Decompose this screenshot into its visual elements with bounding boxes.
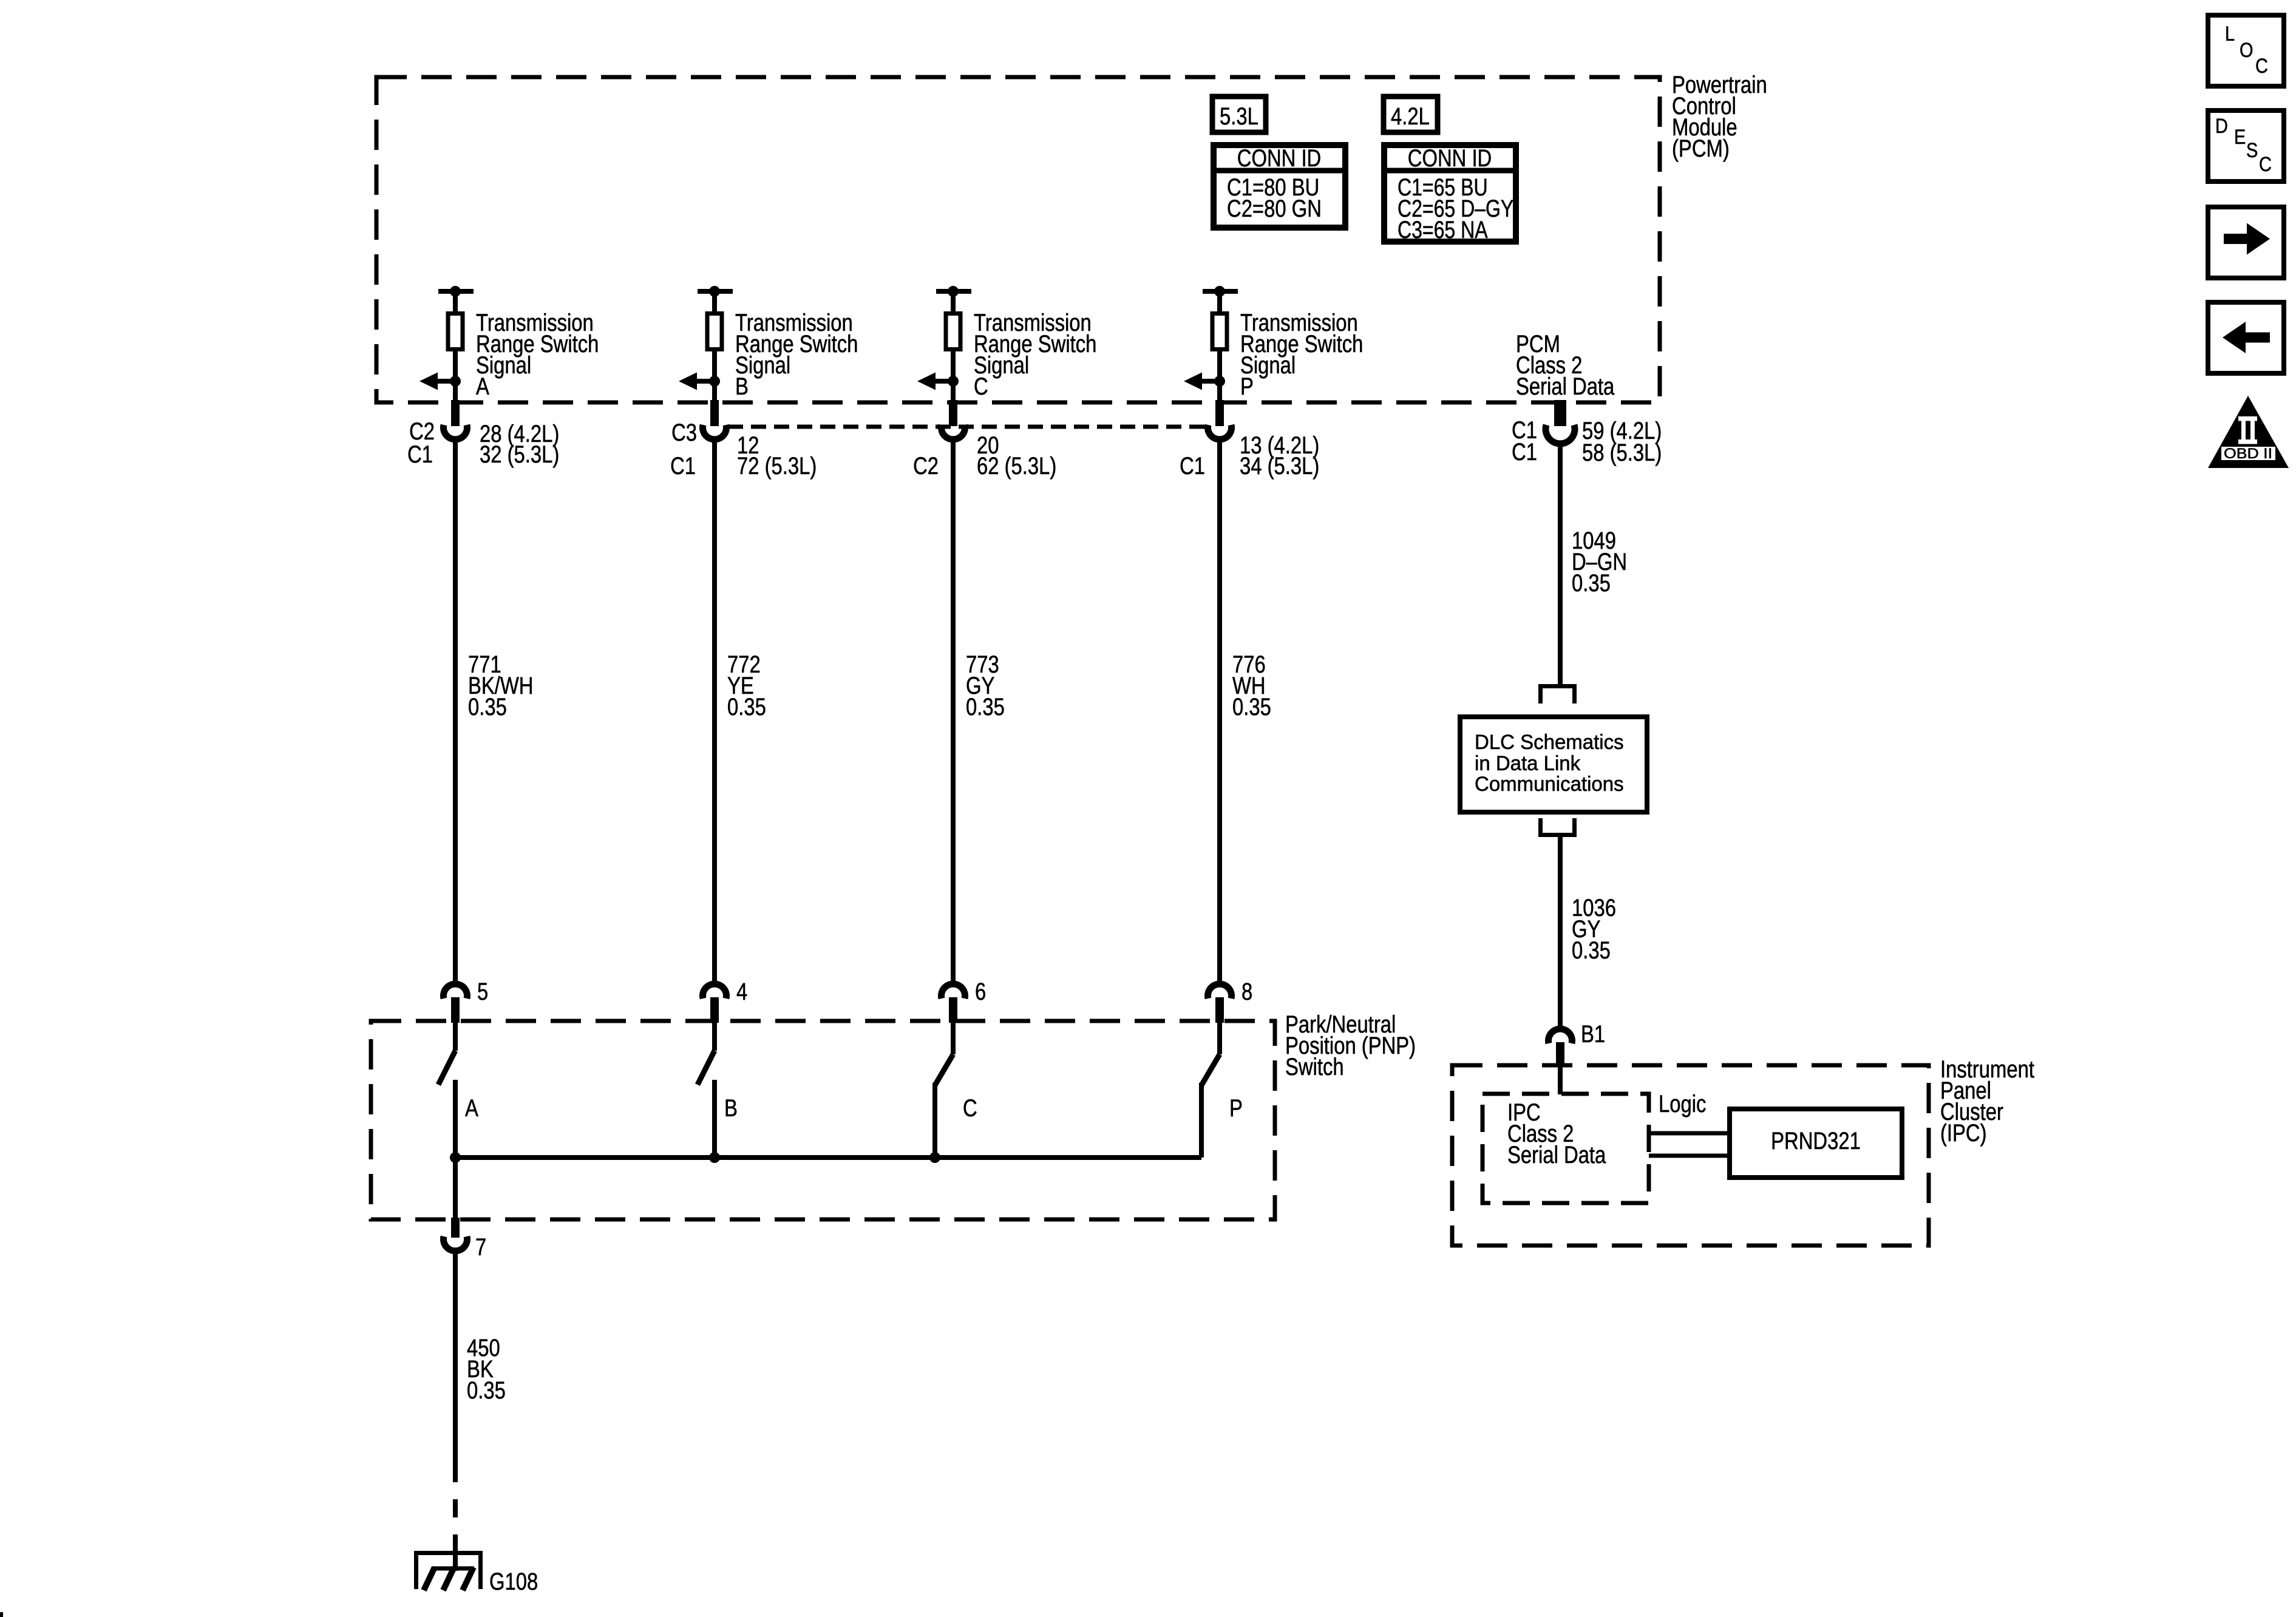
wire, resistor to arrow node C — [951, 351, 956, 404]
pin number 7 — [475, 1234, 486, 1261]
svg-text:C3: C3 — [671, 419, 697, 446]
PNP connector terminal pin 4 — [703, 984, 727, 1023]
pin number 12 (B connector) — [737, 432, 759, 459]
pin number 32 (5.3L) (A connector) — [480, 441, 559, 468]
pin number 28 (4.2L) (A connector) — [480, 421, 559, 447]
wire, pin 5 into switch A — [453, 1023, 458, 1051]
switch position label C — [963, 1095, 977, 1122]
svg-text:C2=80 GN: C2=80 GN — [1227, 195, 1322, 222]
wire 772 from PCM to PNP switch (B) — [712, 439, 717, 982]
wire label 773 GY — [966, 651, 1005, 720]
svg-text:OBD II: OBD II — [2224, 446, 2272, 462]
pin number 20 (C connector) — [977, 432, 999, 459]
junction dot at arrow, signal C — [948, 376, 959, 387]
svg-text:(IPC): (IPC) — [1940, 1120, 1987, 1147]
pin label C2 (C connector) — [913, 453, 939, 480]
switch position label P — [1229, 1095, 1243, 1122]
OBD II icon — [2208, 396, 2289, 468]
signal arrow P — [1184, 373, 1220, 390]
pin number 59 (4.2L) — [1582, 418, 1662, 444]
off-page bracket above DLC box — [1538, 684, 1577, 703]
Park/Neutral Position (PNP) Switch dashed box — [371, 1021, 1275, 1219]
PCM connector terminal, signal P — [1207, 400, 1231, 439]
junction dot at arrow, signal A — [450, 376, 461, 387]
wire 776 from PCM to PNP switch (P) — [1217, 439, 1222, 982]
svg-text:Serial Data: Serial Data — [1507, 1142, 1606, 1168]
DESC icon box — [2208, 110, 2284, 181]
svg-text:E: E — [2234, 126, 2246, 149]
switch position label B — [724, 1095, 738, 1122]
label Transmission Range Switch Signal P — [1240, 310, 1363, 400]
page corner mark — [0, 1612, 3, 1617]
wire, pin 4 into switch B — [712, 1023, 717, 1051]
junction dot top, signal C — [948, 286, 959, 297]
switch blade A — [438, 1051, 455, 1085]
label Transmission Range Switch Signal C — [974, 310, 1096, 400]
DLC Schematics reference box — [1460, 717, 1647, 812]
pin number 5 — [477, 978, 488, 1005]
svg-text:L: L — [2225, 22, 2235, 46]
svg-text:0.35: 0.35 — [467, 1377, 506, 1404]
svg-text:B: B — [724, 1095, 738, 1122]
IPC connector terminal B1 — [1549, 1029, 1572, 1066]
PNP connector terminal pin 7 — [444, 1218, 467, 1251]
svg-text:S: S — [2246, 139, 2258, 162]
PCM connector terminal, signal B — [703, 400, 727, 439]
PNP connector terminal pin 5 — [444, 984, 467, 1023]
svg-text:0.35: 0.35 — [468, 694, 507, 720]
switch blade C — [935, 1054, 953, 1085]
pin number 34 (5.3L) (P connector) — [1240, 453, 1319, 480]
PCM module label — [1672, 72, 1767, 162]
svg-text:0.35: 0.35 — [1232, 694, 1271, 720]
switch position label A — [465, 1095, 478, 1122]
PCM connector terminal, signal C — [942, 400, 965, 439]
PNP connector terminal pin 8 — [1207, 984, 1231, 1023]
wire label 776 WH — [1232, 651, 1271, 720]
wire label 450 BK 0.35 — [467, 1335, 506, 1404]
dotted link line across connectors — [728, 425, 1207, 429]
wire label 771 BK/WH — [468, 651, 534, 720]
svg-text:C: C — [2255, 55, 2268, 78]
switch blade P — [1201, 1054, 1220, 1085]
svg-text:0.35: 0.35 — [966, 694, 1005, 720]
pin number 72 (5.3L) (B connector) — [737, 453, 817, 480]
engine tag 4.2L — [1384, 97, 1438, 132]
wire 450 BK to ground — [453, 1252, 458, 1571]
engine tag 5.3L — [1212, 97, 1266, 132]
svg-text:O: O — [2240, 39, 2254, 62]
svg-text:(PCM): (PCM) — [1672, 135, 1730, 162]
svg-text:0.35: 0.35 — [1572, 937, 1611, 964]
svg-text:DLC Schematics: DLC Schematics — [1475, 731, 1624, 754]
svg-text:PRND321: PRND321 — [1771, 1128, 1861, 1154]
svg-text:B1: B1 — [1581, 1021, 1605, 1048]
junction dot top, signal P — [1214, 286, 1225, 297]
wire, pin 6 into switch C — [951, 1023, 956, 1054]
pin number 13 (4.2L) (P connector) — [1240, 432, 1319, 459]
signal arrow C — [917, 373, 953, 390]
internal node bar, signal B — [698, 289, 733, 294]
junction dot bus at A — [450, 1152, 461, 1163]
resistor, Transmission Range Switch Signal B — [707, 314, 722, 350]
svg-text:CONN ID: CONN ID — [1237, 145, 1322, 172]
IPC label — [1940, 1056, 2034, 1147]
svg-text:58 (5.3L): 58 (5.3L) — [1582, 439, 1662, 466]
pin label C1 (P connector) — [1180, 453, 1205, 480]
svg-text:G108: G108 — [489, 1568, 538, 1595]
wire, B1 into IPC — [1558, 1066, 1563, 1094]
wire label 772 YE — [727, 651, 766, 720]
wire, node bar to resistor B — [712, 291, 717, 313]
junction dot bus at B — [709, 1152, 720, 1163]
wire, resistor to arrow node P — [1217, 351, 1222, 404]
svg-text:C1: C1 — [670, 453, 696, 480]
pin number B1 — [1581, 1021, 1605, 1048]
PCM Class 2 Serial Data label — [1516, 331, 1615, 400]
svg-text:in Data Link: in Data Link — [1475, 752, 1581, 775]
signal arrow A — [419, 373, 455, 390]
wire label 1036 GY 0.35 — [1572, 895, 1616, 964]
pin label C1 (serial, 5.3L) — [1512, 439, 1537, 466]
pin label C1 (B connector) — [670, 453, 696, 480]
CONN ID table (4.2L) — [1384, 145, 1516, 243]
svg-text:P: P — [1229, 1095, 1243, 1122]
pin number 8 — [1241, 978, 1252, 1005]
svg-text:B: B — [735, 373, 749, 400]
Logic label — [1659, 1091, 1706, 1117]
wire, resistor to arrow node A — [453, 351, 458, 404]
wire label 1049 D-GN 0.35 — [1572, 527, 1627, 597]
wire, node bar to resistor P — [1217, 291, 1222, 313]
LOC icon box — [2208, 15, 2284, 86]
pin label C2 (A connector) — [409, 418, 435, 445]
svg-text:C: C — [2259, 153, 2272, 176]
svg-text:62 (5.3L): 62 (5.3L) — [977, 453, 1056, 480]
internal node bar, signal A — [438, 289, 474, 294]
svg-text:C: C — [963, 1095, 977, 1122]
logic bus double line — [1649, 1133, 1731, 1156]
junction dot at arrow, signal P — [1214, 376, 1225, 387]
wire, lower contact A to common bus — [453, 1080, 458, 1158]
wire 1036 GY — [1558, 837, 1563, 1028]
svg-text:Switch: Switch — [1285, 1054, 1344, 1080]
wire 773 from PCM to PNP switch (C) — [951, 439, 956, 982]
PCM connector terminal, serial data — [1546, 400, 1575, 444]
PRND321 display box — [1730, 1109, 1902, 1178]
svg-text:C2: C2 — [913, 453, 939, 480]
common bus wire in PNP switch — [455, 1155, 1201, 1160]
svg-text:D: D — [2215, 115, 2228, 138]
pin number 4 — [736, 978, 747, 1005]
wire, resistor to arrow node B — [712, 351, 717, 404]
pin number 62 (5.3L) (C connector) — [977, 453, 1056, 480]
svg-text:A: A — [476, 373, 489, 400]
back arrow icon box — [2208, 302, 2284, 373]
svg-text:72 (5.3L): 72 (5.3L) — [737, 453, 817, 480]
internal node bar, signal C — [936, 289, 971, 294]
junction dot at arrow, signal B — [709, 376, 720, 387]
svg-text:Serial Data: Serial Data — [1516, 373, 1615, 400]
internal node bar, signal P — [1203, 289, 1238, 294]
switch blade B — [698, 1051, 715, 1085]
svg-text:32 (5.3L): 32 (5.3L) — [480, 441, 559, 468]
wire, bus to pin 7 — [453, 1158, 458, 1219]
Powertrain Control Module (PCM) dashed box — [376, 77, 1660, 402]
svg-text:7: 7 — [475, 1234, 486, 1261]
wire 1049 D-GN — [1558, 442, 1563, 685]
pin label C1 (A connector) — [407, 441, 433, 468]
svg-text:C3=65 NA: C3=65 NA — [1398, 217, 1488, 243]
PNP switch label — [1285, 1011, 1416, 1080]
svg-text:A: A — [465, 1095, 478, 1122]
CONN ID table (5.3L) — [1214, 145, 1345, 228]
pin number 58 (5.3L) — [1582, 439, 1662, 466]
wire 771 from PCM to PNP switch (A) — [453, 439, 458, 982]
svg-text:6: 6 — [975, 978, 986, 1005]
IPC Class 2 Serial Data label — [1507, 1099, 1606, 1168]
svg-text:P: P — [1240, 373, 1254, 400]
svg-text:C1: C1 — [1512, 439, 1537, 466]
svg-text:4.2L: 4.2L — [1391, 103, 1430, 130]
off-page bracket below DLC box — [1538, 818, 1577, 837]
svg-text:C1: C1 — [1180, 453, 1205, 480]
ground name G108 — [489, 1568, 538, 1595]
pin number 6 — [975, 978, 986, 1005]
wire, pin 8 into switch P — [1217, 1023, 1222, 1054]
svg-text:Logic: Logic — [1659, 1091, 1706, 1117]
svg-text:CONN ID: CONN ID — [1408, 145, 1492, 172]
PNP connector terminal pin 6 — [942, 984, 965, 1023]
wire, node bar to resistor C — [951, 291, 956, 313]
ground G108 — [414, 1551, 483, 1590]
forward arrow icon box — [2208, 207, 2284, 278]
svg-text:5: 5 — [477, 978, 488, 1005]
wire, blade C to common bus — [932, 1083, 937, 1158]
wire, blade P to common bus — [1199, 1083, 1204, 1158]
label Transmission Range Switch Signal B — [735, 310, 858, 400]
svg-text:0.35: 0.35 — [727, 694, 766, 720]
resistor, Transmission Range Switch Signal A — [448, 314, 463, 350]
signal arrow B — [679, 373, 715, 390]
svg-text:Communications: Communications — [1475, 773, 1624, 796]
PCM connector terminal, signal A — [444, 400, 467, 439]
junction dot top, signal B — [709, 286, 720, 297]
resistor, Transmission Range Switch Signal C — [946, 314, 960, 350]
svg-text:4: 4 — [736, 978, 747, 1005]
svg-text:8: 8 — [1241, 978, 1252, 1005]
pin label C3 (B connector) — [671, 419, 697, 446]
svg-text:C1: C1 — [407, 441, 433, 468]
pin label C1 (serial, 4.2L) — [1512, 417, 1537, 444]
svg-text:C: C — [974, 373, 988, 400]
wire, node bar to resistor A — [453, 291, 458, 313]
svg-text:0.35: 0.35 — [1572, 570, 1611, 597]
junction dot top, signal A — [450, 286, 461, 297]
resistor, Transmission Range Switch Signal P — [1212, 314, 1227, 350]
label Transmission Range Switch Signal A — [476, 310, 599, 400]
IPC Class 2 Serial Data inner dashed box — [1483, 1094, 1649, 1203]
junction dot bus at C — [929, 1152, 940, 1163]
Instrument Panel Cluster dashed box — [1452, 1065, 1929, 1246]
svg-text:5.3L: 5.3L — [1220, 103, 1258, 130]
svg-text:34 (5.3L): 34 (5.3L) — [1240, 453, 1319, 480]
wire, lower contact B to common bus — [712, 1080, 717, 1158]
